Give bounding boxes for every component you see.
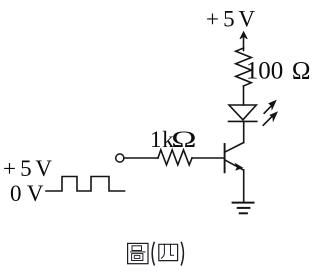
close paren: [181, 242, 183, 264]
svg-text:+ 5 V: + 5 V: [206, 7, 255, 32]
wire LED cathode to collector: [243, 121, 245, 142]
square wave input signal: [46, 177, 125, 192]
resistor R1 100 ohm: [236, 48, 252, 86]
LED D1 triangle: [229, 105, 256, 120]
transistor Q1 base bar: [224, 144, 226, 172]
wire resistor to LED: [243, 86, 245, 105]
svg-text:Ω: Ω: [171, 127, 196, 152]
caption figure (four): [128, 242, 184, 264]
wire terminal to R2: [124, 157, 158, 159]
glyph si inner stroke right: [171, 244, 174, 255]
svg-text:100Ω: 100Ω: [246, 58, 311, 85]
resistor R2 1 kohm: [158, 150, 192, 165]
LED light arrow upper: [264, 105, 272, 113]
LED light arrow lower: [263, 117, 271, 125]
svg-text:0 V: 0 V: [10, 181, 44, 206]
open paren: [152, 242, 154, 264]
transistor Q1 emitter lead: [225, 160, 244, 170]
power supply arrow up: [243, 34, 245, 51]
wire emitter to ground: [243, 170, 245, 202]
glyph tu (picture) outer box: [128, 243, 148, 263]
glyph si (four) outer box: [159, 244, 178, 260]
input terminal circle: [116, 154, 124, 162]
svg-text:+ 5 V: + 5 V: [3, 156, 52, 181]
glyph tu bottom box: [132, 254, 143, 261]
glyph tu inner box: [134, 256, 140, 259]
emitter arrowhead: [235, 164, 242, 170]
glyph tu middle bar: [131, 251, 146, 253]
glyph si inner stroke left: [161, 244, 164, 258]
svg-text:1: 1: [150, 127, 162, 152]
transistor Q1 collector lead: [225, 143, 244, 153]
ground: [233, 202, 254, 204]
glyph tu top small box: [132, 246, 142, 251]
LED cathode bar: [229, 120, 257, 122]
wire R2 to base: [192, 157, 225, 159]
